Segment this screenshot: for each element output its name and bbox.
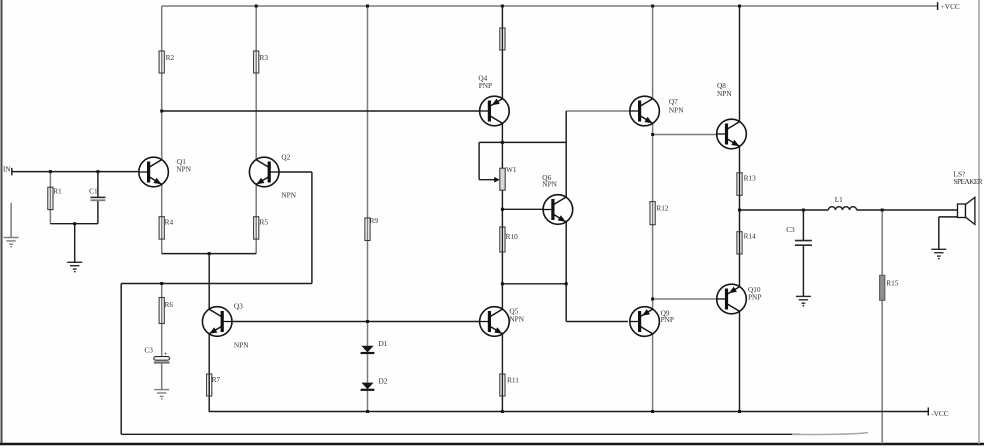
svg-text:IN: IN	[3, 165, 11, 174]
svg-text:C3: C3	[144, 345, 153, 354]
svg-text:NPN: NPN	[509, 315, 524, 324]
svg-text:NPN: NPN	[717, 89, 732, 98]
svg-text:R6: R6	[165, 300, 174, 309]
svg-text:C3: C3	[786, 225, 795, 234]
svg-text:Q2: Q2	[281, 153, 290, 162]
svg-text:R7: R7	[212, 375, 221, 384]
svg-text:W1: W1	[506, 165, 517, 174]
svg-text:PNP: PNP	[479, 81, 492, 90]
svg-text:R1: R1	[53, 186, 62, 195]
svg-text:NPN: NPN	[542, 180, 557, 189]
svg-text:PNP: PNP	[748, 292, 761, 301]
svg-text:SPEAKER: SPEAKER	[954, 177, 983, 186]
svg-text:R2: R2	[166, 53, 175, 62]
svg-text:-VCC: -VCC	[931, 409, 949, 418]
svg-text:L1: L1	[835, 195, 843, 204]
svg-text:NPN: NPN	[234, 341, 249, 350]
svg-text:C1: C1	[89, 186, 98, 195]
svg-text:NPN: NPN	[669, 105, 684, 114]
svg-text:PNP: PNP	[661, 315, 674, 324]
svg-text:R4: R4	[165, 218, 174, 227]
svg-text:R13: R13	[744, 174, 757, 183]
svg-text:R11: R11	[507, 376, 519, 385]
svg-text:Q3: Q3	[234, 302, 243, 311]
svg-text:NPN: NPN	[281, 191, 296, 200]
svg-text:R5: R5	[260, 218, 269, 227]
svg-text:+VCC: +VCC	[941, 2, 960, 11]
svg-text:R12: R12	[656, 203, 669, 212]
svg-text:R9: R9	[370, 216, 379, 225]
svg-text:D1: D1	[379, 339, 388, 348]
svg-text:NPN: NPN	[176, 165, 191, 174]
svg-text:R10: R10	[506, 232, 519, 241]
svg-text:R3: R3	[260, 53, 269, 62]
svg-text:D2: D2	[379, 376, 388, 385]
svg-text:+: +	[164, 350, 168, 358]
svg-text:R14: R14	[744, 232, 757, 241]
svg-text:R15: R15	[886, 278, 899, 287]
